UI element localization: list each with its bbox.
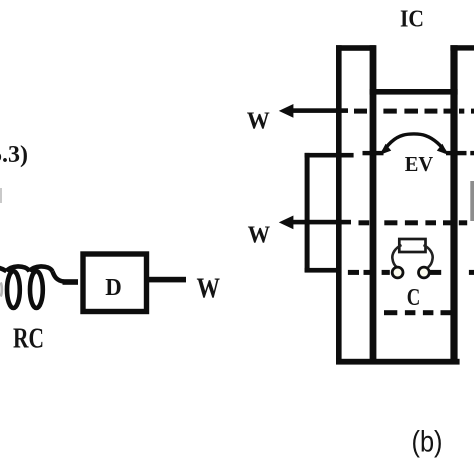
crucible left terminal circle — [392, 267, 403, 278]
crucible right lead — [424, 245, 433, 267]
inner chamber top edge — [370, 89, 458, 95]
stray mark at left edge — [0, 188, 2, 203]
dashed level line 5 (y=312) — [384, 310, 451, 315]
level line 2 dash at right edge — [470, 151, 474, 155]
arrow W (lower window) shaft — [291, 220, 351, 225]
outer chamber left rectangle: top edge — [336, 45, 376, 51]
side step rectangle: top edge extending to level line — [305, 153, 354, 158]
EV arc right arrowhead — [437, 144, 448, 155]
arrow W (upper window) shaft — [291, 108, 348, 113]
svg-text:W: W — [248, 223, 271, 249]
EV arc (curved double arrow) — [383, 134, 446, 153]
crucible C body — [399, 239, 425, 252]
EV arc left arrowhead — [380, 144, 391, 155]
svg-text:EV: EV — [405, 152, 433, 176]
inner chamber left wall (thick) — [370, 45, 377, 364]
arrow W (lower window) head — [279, 216, 294, 230]
wire stub from coil to box D — [63, 279, 79, 285]
chamber bottom edge — [336, 359, 460, 365]
dashed level line 3 (y=223) — [359, 220, 468, 225]
svg-text:IC: IC — [400, 7, 424, 33]
outer chamber left rectangle: left wall — [336, 45, 342, 364]
side step rectangle: left wall — [305, 153, 310, 272]
svg-text:W: W — [197, 274, 221, 305]
dashed level line 1 (y=111) — [354, 109, 474, 114]
cut-off gray bar at right edge — [470, 181, 474, 221]
svg-text:C: C — [407, 285, 421, 311]
level line 2 tick crossing right wall — [446, 151, 467, 155]
faint cut-off first loop of coil at image edge — [1, 283, 2, 297]
crucible right terminal circle — [419, 267, 430, 278]
svg-text:RC: RC — [13, 324, 44, 355]
dashed level line 4 (y=272) — [348, 270, 474, 275]
side step rectangle: bottom edge — [305, 268, 342, 273]
svg-text:5.3): 5.3) — [0, 142, 28, 168]
level line 2 tick crossing left wall — [363, 151, 384, 155]
box D (detector block) — [83, 254, 147, 312]
svg-text:(b): (b) — [412, 426, 443, 459]
coil RC (inductor loops) — [0, 266, 64, 308]
inner chamber right wall (thick) — [450, 45, 457, 364]
svg-text:W: W — [247, 108, 270, 134]
outer chamber right rectangle: top edge (cut by image edge) — [450, 45, 474, 50]
crucible left lead — [392, 245, 401, 267]
wire from box D to W — [149, 277, 186, 283]
svg-text:D: D — [105, 275, 122, 301]
arrow W (upper window) head — [279, 104, 294, 118]
